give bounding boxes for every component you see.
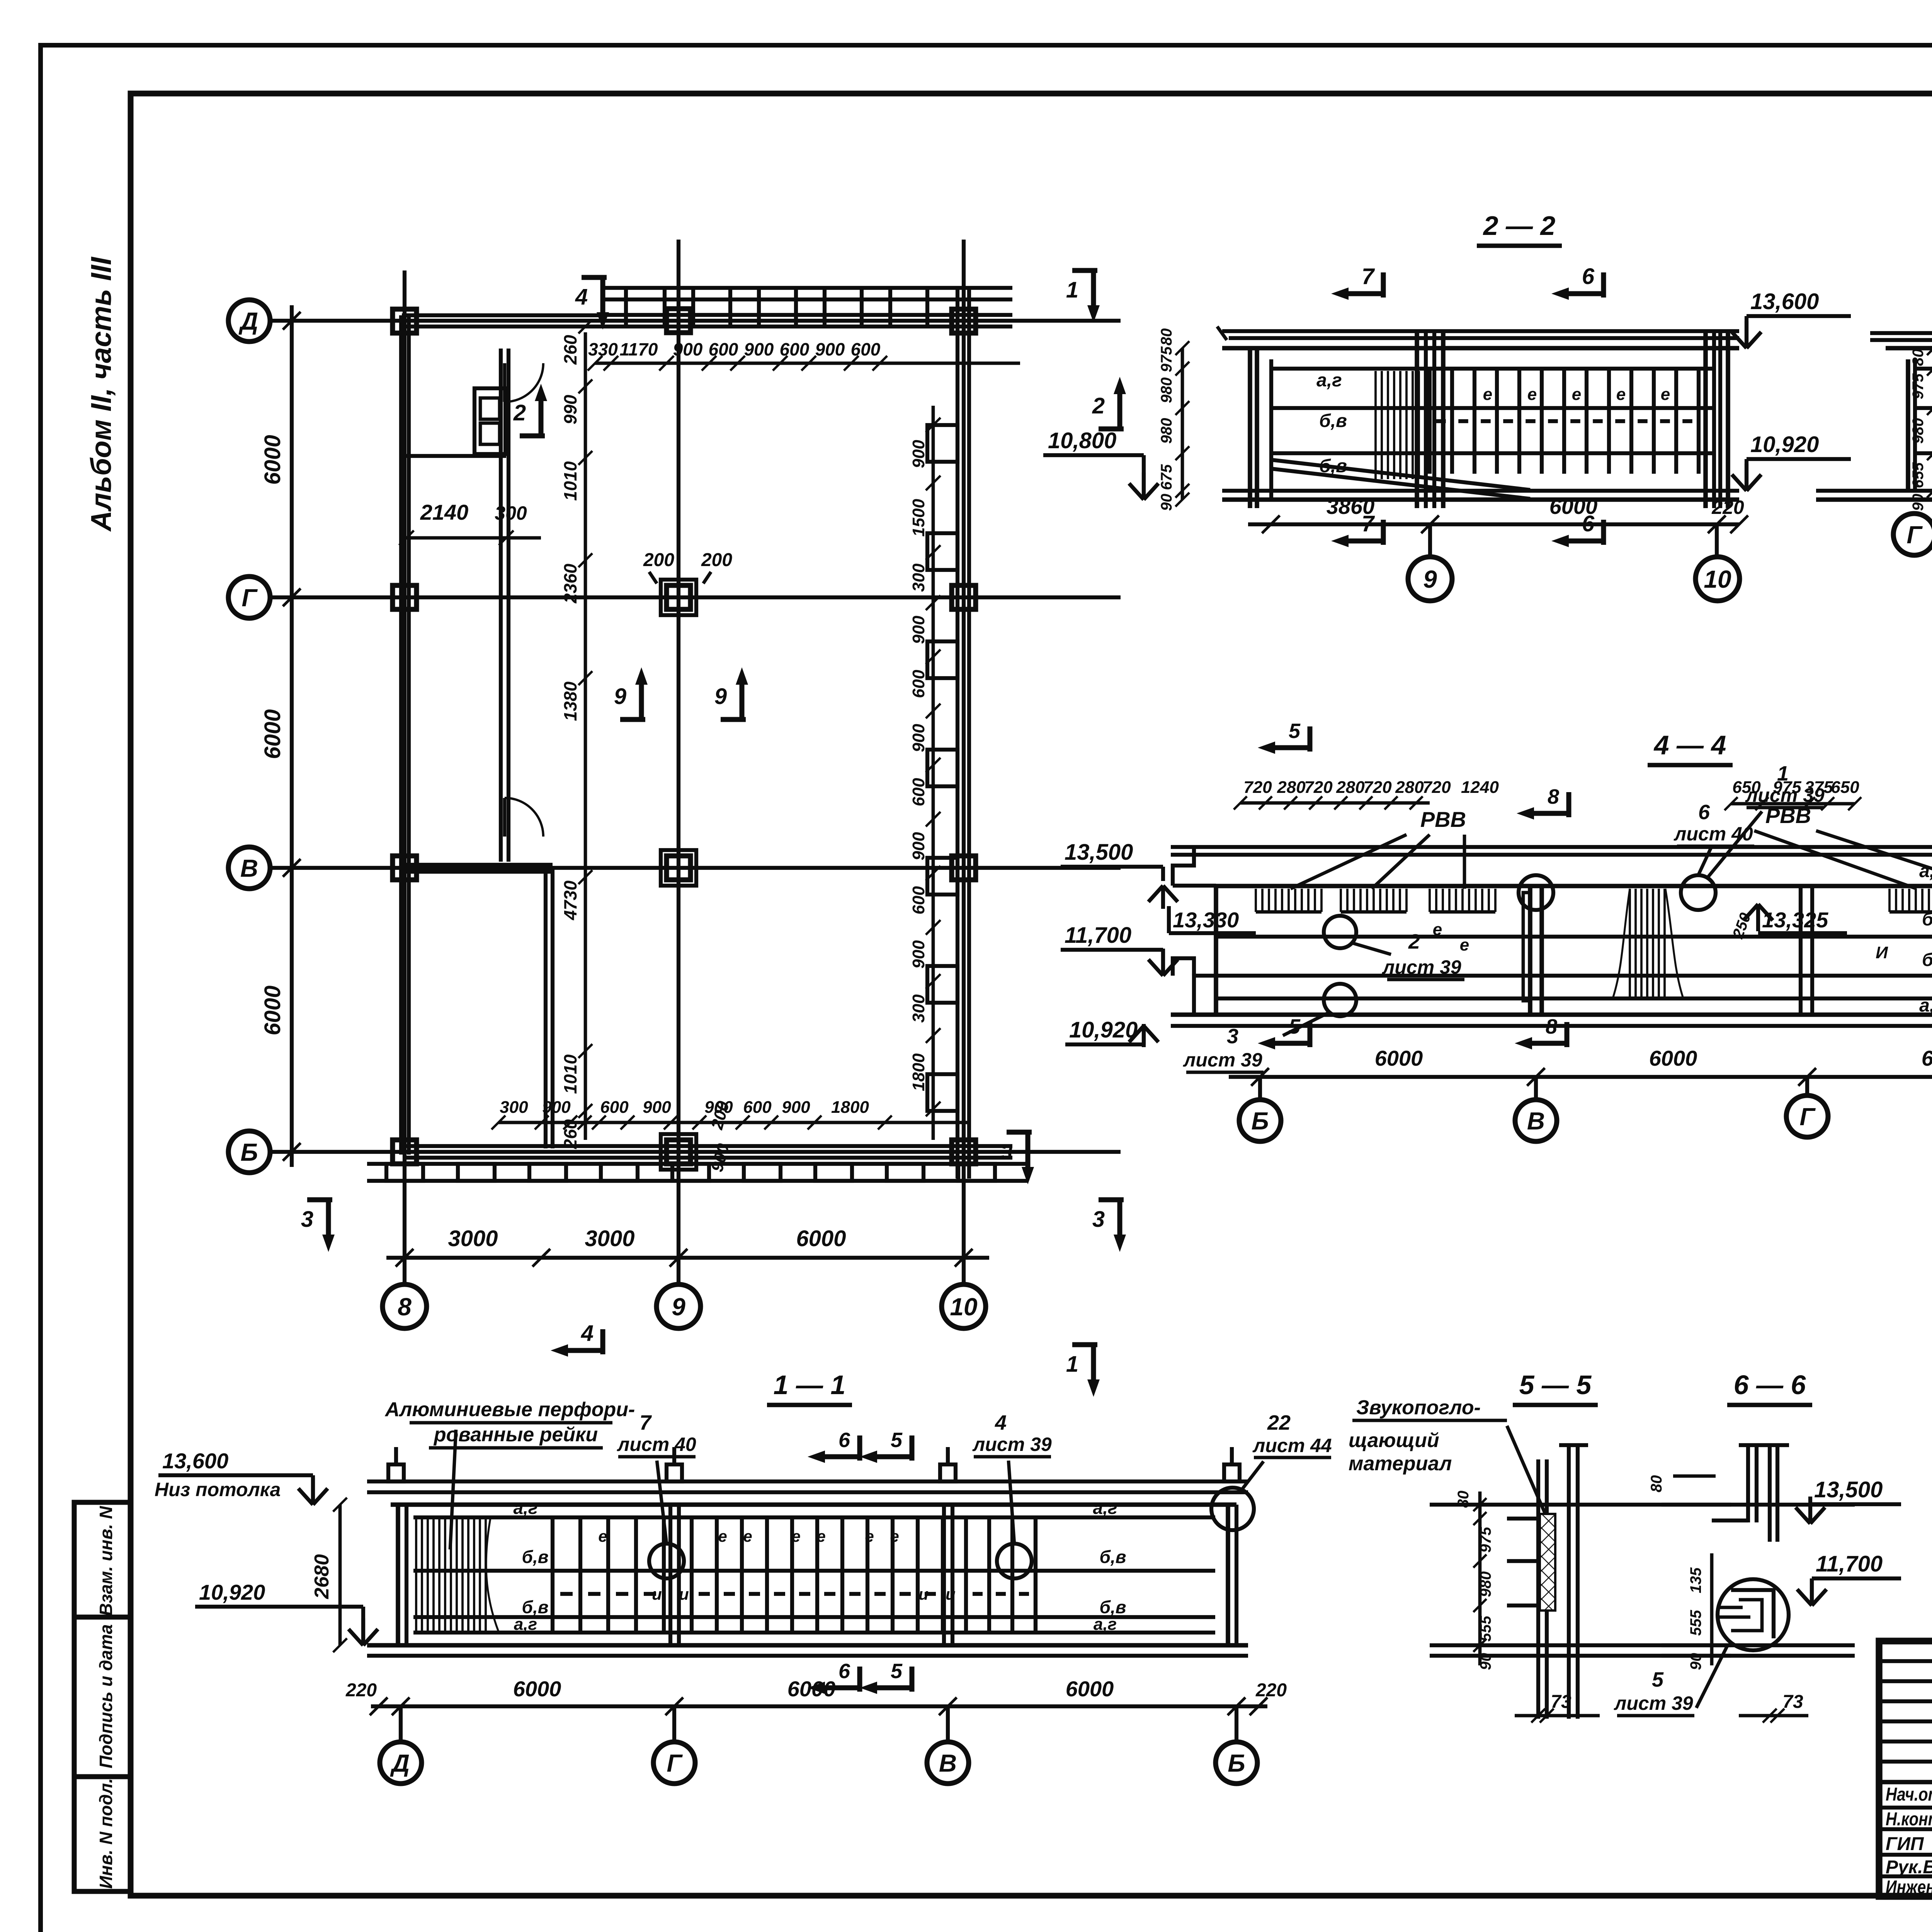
svg-text:6000: 6000 <box>260 985 285 1035</box>
plan door swing lower <box>503 798 507 837</box>
svg-text:900: 900 <box>744 339 774 359</box>
svg-text:4730: 4730 <box>560 880 580 920</box>
svg-text:260: 260 <box>560 1119 580 1149</box>
section 7-7 window cell lines <box>1915 406 1932 410</box>
plan south dimension string <box>498 1121 970 1124</box>
svg-text:7: 7 <box>1362 264 1375 289</box>
section 6-6 dim 73 <box>1739 1714 1808 1718</box>
svg-text:лист 39: лист 39 <box>1183 1049 1262 1071</box>
title block main frame <box>1879 1641 1932 1896</box>
svg-text:10: 10 <box>1704 565 1731 593</box>
section 4-4 parapet left <box>1173 847 1194 886</box>
section 1-1 dim 2680 <box>338 1505 342 1645</box>
svg-text:720: 720 <box>1304 778 1333 797</box>
section 2-2 stair shaft hatch <box>1374 371 1377 479</box>
svg-text:И: И <box>1876 943 1888 962</box>
cut mark 9 right <box>721 717 746 722</box>
svg-text:е: е <box>1616 385 1626 404</box>
svg-text:Низ потолка: Низ потолка <box>155 1479 281 1500</box>
section 4-4 bottom dimension line <box>1229 1075 1932 1079</box>
svg-text:1800: 1800 <box>831 1098 869 1117</box>
section 2-2 axis circle 9 <box>1428 524 1432 557</box>
plan column 10-Г <box>952 585 976 609</box>
svg-text:600: 600 <box>600 1098 629 1117</box>
svg-text:300: 300 <box>909 563 928 592</box>
svg-text:лист 40: лист 40 <box>1673 823 1753 845</box>
svg-text:600: 600 <box>909 886 928 915</box>
plan column 10-Б <box>952 1140 976 1164</box>
section 4-4 cut mark 8 top <box>1566 792 1571 817</box>
plan wall at В <box>406 863 553 867</box>
section 4-4 top slab <box>1171 845 1932 849</box>
section 4-4 axis circle Г <box>1805 1077 1809 1095</box>
svg-text:Г: Г <box>667 1749 683 1777</box>
svg-text:Инженер: Инженер <box>1886 1877 1932 1898</box>
svg-text:3: 3 <box>1227 1025 1238 1048</box>
svg-text:975: 975 <box>1477 1527 1494 1553</box>
svg-text:9: 9 <box>1423 565 1437 593</box>
section 2-2 stair ramp <box>1271 460 1530 490</box>
section 2-2 ceiling line <box>1271 367 1716 371</box>
section 2-2 cut mark 7 top <box>1381 272 1386 298</box>
svg-text:650: 650 <box>1732 778 1761 797</box>
svg-text:9: 9 <box>614 684 626 709</box>
plan interior vertical dimension chain <box>584 332 587 1140</box>
svg-text:980: 980 <box>1910 418 1927 444</box>
svg-text:720: 720 <box>1422 778 1451 797</box>
svg-text:лист 39: лист 39 <box>1614 1692 1693 1714</box>
axis circle 9 <box>656 1284 701 1328</box>
plan column 9-Б <box>667 1140 690 1164</box>
section 1-1 cut marks 6 5 bottom <box>857 1667 862 1692</box>
cut mark 3 left <box>307 1197 332 1202</box>
svg-text:650: 650 <box>1831 778 1859 797</box>
svg-text:11,700: 11,700 <box>1816 1551 1883 1577</box>
svg-text:8: 8 <box>1546 1015 1557 1038</box>
svg-text:2: 2 <box>1092 393 1105 418</box>
svg-text:980: 980 <box>1477 1571 1494 1597</box>
section 4-4 band lines <box>1216 935 1932 939</box>
svg-text:6000: 6000 <box>1922 1046 1932 1070</box>
plan column 8-Г <box>393 585 417 609</box>
floor plan axis 8 <box>403 270 406 1287</box>
section 5-5 ceiling line <box>1430 1503 1731 1507</box>
svg-text:10,920: 10,920 <box>199 1580 265 1604</box>
section 1-1 ceiling line <box>391 1502 1236 1507</box>
svg-text:Б: Б <box>240 1138 258 1166</box>
svg-text:80: 80 <box>1158 328 1175 346</box>
svg-text:220: 220 <box>1711 497 1744 518</box>
svg-text:6: 6 <box>838 1660 850 1683</box>
svg-text:Звукопогло-: Звукопогло- <box>1356 1396 1481 1419</box>
cut mark 9 left <box>620 717 645 722</box>
svg-text:Взам. инв. N: Взам. инв. N <box>96 1506 116 1616</box>
section 2-2 left dim chain <box>1181 348 1184 500</box>
svg-text:375: 375 <box>1804 778 1833 797</box>
section 4-4 detail circle 3 <box>1324 984 1356 1016</box>
svg-text:90: 90 <box>1687 1653 1704 1670</box>
section 5-5 dim chain <box>1478 1492 1482 1665</box>
svg-text:900: 900 <box>909 440 928 468</box>
axis circle 8 <box>383 1284 427 1328</box>
svg-text:а,г: а,г <box>514 1615 537 1634</box>
plan closet <box>474 388 505 454</box>
svg-text:6000: 6000 <box>1375 1046 1423 1070</box>
floor plan axis 10 <box>962 240 966 1287</box>
svg-text:6000: 6000 <box>787 1677 836 1701</box>
svg-text:Д: Д <box>238 307 258 335</box>
svg-text:лист 39: лист 39 <box>1382 956 1461 978</box>
svg-text:1380: 1380 <box>560 681 580 721</box>
svg-text:е: е <box>743 1527 752 1545</box>
section 5-5 ticks <box>1507 1517 1540 1520</box>
svg-text:6: 6 <box>838 1429 850 1452</box>
svg-text:6000: 6000 <box>513 1677 561 1701</box>
svg-text:6000: 6000 <box>1649 1046 1697 1070</box>
svg-text:600: 600 <box>851 339 881 359</box>
section 1-1 axis circle В <box>946 1706 950 1742</box>
svg-text:80: 80 <box>1910 349 1927 366</box>
svg-text:975: 975 <box>1158 346 1175 372</box>
svg-text:РВВ: РВВ <box>1420 807 1466 832</box>
section 4-4 axis circle Б <box>1258 1077 1262 1100</box>
svg-text:а,г: а,г <box>1919 995 1932 1016</box>
svg-text:10,920: 10,920 <box>1750 432 1819 457</box>
section 4-4 cut mark 8 bottom <box>1565 1022 1570 1047</box>
section 4-4 axis circle В <box>1534 1077 1538 1100</box>
svg-text:3: 3 <box>1001 1141 1012 1164</box>
section 4-4 cut mark 5 bottom <box>1308 1022 1313 1047</box>
svg-text:280: 280 <box>1336 778 1365 797</box>
section 1-1 detail circle 7 <box>649 1544 684 1578</box>
svg-text:73: 73 <box>1551 1692 1571 1712</box>
svg-text:лист 40: лист 40 <box>617 1434 696 1455</box>
section 1-1 band bottom <box>413 1631 1215 1634</box>
svg-text:1800: 1800 <box>909 1053 928 1091</box>
axis circle Г <box>228 577 270 618</box>
svg-text:1010: 1010 <box>560 461 580 501</box>
cut mark 1 top <box>1072 268 1097 273</box>
section 4-4 top dim string left <box>1240 801 1430 805</box>
svg-text:900: 900 <box>643 1098 671 1117</box>
svg-text:Г: Г <box>1906 521 1923 549</box>
section 1-1 axis circle Б <box>1235 1706 1238 1742</box>
svg-text:6 — 6: 6 — 6 <box>1734 1370 1806 1400</box>
plan partition room top-left <box>406 454 506 458</box>
svg-text:а,г: а,г <box>1919 861 1932 881</box>
svg-text:6000: 6000 <box>1549 494 1598 519</box>
svg-text:9: 9 <box>714 684 727 709</box>
plan wall along axis 8 <box>399 315 403 1155</box>
title block left small table <box>1879 1659 1932 1663</box>
section 1-1 bottom dimension line <box>371 1704 1267 1708</box>
plan column 9-Д <box>667 309 690 333</box>
svg-text:220: 220 <box>1255 1680 1287 1701</box>
section 4-4 left lower ledge <box>1173 958 1194 976</box>
section 2-2 right column <box>1703 331 1708 508</box>
svg-text:а,г: а,г <box>1094 1615 1117 1634</box>
svg-text:е: е <box>598 1527 607 1545</box>
svg-text:б,в: б,в <box>1319 456 1347 476</box>
svg-text:13,500: 13,500 <box>1814 1477 1883 1502</box>
svg-text:555: 555 <box>1687 1610 1704 1636</box>
svg-text:5: 5 <box>1289 719 1301 743</box>
svg-text:Рук.Бр.: Рук.Бр. <box>1886 1857 1932 1878</box>
svg-text:е: е <box>1460 935 1469 954</box>
svg-text:В: В <box>1527 1107 1545 1135</box>
section 2-2 column axis 9 <box>1415 331 1419 508</box>
svg-text:Алюминиевые перфори-: Алюминиевые перфори- <box>384 1398 635 1421</box>
section 4-4 top dim string right <box>1731 802 1855 806</box>
svg-text:675: 675 <box>1158 464 1175 490</box>
section 6-6 floor line <box>1662 1643 1855 1647</box>
section 4-4 detail circle 6 <box>1681 875 1716 910</box>
svg-text:материал: материал <box>1349 1452 1452 1475</box>
svg-text:720: 720 <box>1363 778 1392 797</box>
axis circle 10 <box>942 1284 986 1328</box>
svg-text:300: 300 <box>909 994 928 1023</box>
section 1-1 cut marks 6 5 top <box>857 1435 862 1461</box>
svg-text:б,в: б,в <box>1922 950 1932 970</box>
section 1-1 axis circle Д <box>399 1706 403 1742</box>
floor plan axis line Б <box>270 1150 1121 1154</box>
plan column 10-В <box>952 856 976 880</box>
svg-text:Подпись и дата: Подпись и дата <box>96 1624 116 1769</box>
svg-text:ГИП: ГИП <box>1886 1834 1924 1854</box>
section 6-6 detail circle <box>1718 1579 1789 1650</box>
section 2-2 floor line <box>1222 489 1739 493</box>
cut mark 4 bottom <box>600 1329 605 1354</box>
svg-text:5: 5 <box>1652 1668 1664 1691</box>
section 1-1 window mullions middle bay <box>690 1517 694 1633</box>
section 5-5 dim 73 <box>1515 1714 1600 1718</box>
svg-text:980: 980 <box>1158 378 1175 403</box>
svg-text:2140: 2140 <box>420 500 469 524</box>
svg-text:4 — 4: 4 — 4 <box>1653 730 1726 760</box>
svg-text:б,в: б,в <box>1922 909 1932 930</box>
svg-text:11,700: 11,700 <box>1065 923 1131 948</box>
svg-text:200: 200 <box>701 550 732 570</box>
svg-text:1500: 1500 <box>909 499 928 537</box>
svg-text:е: е <box>865 1527 874 1545</box>
svg-text:260: 260 <box>560 335 580 365</box>
svg-text:б,в: б,в <box>1319 411 1347 431</box>
svg-text:555: 555 <box>1477 1616 1494 1641</box>
svg-text:90: 90 <box>1158 494 1175 511</box>
plan wall corridor lower <box>544 868 548 1148</box>
section 1-1 window band top <box>413 1515 1215 1519</box>
svg-text:10,920: 10,920 <box>1069 1017 1138 1043</box>
svg-text:600: 600 <box>909 670 928 698</box>
svg-text:900: 900 <box>815 339 845 359</box>
section 6-6 wall top <box>1746 1445 1750 1522</box>
svg-text:975: 975 <box>1773 778 1801 797</box>
svg-text:Г: Г <box>241 584 258 612</box>
svg-text:2: 2 <box>513 400 526 425</box>
svg-text:600: 600 <box>909 778 928 806</box>
svg-text:и: и <box>946 1585 956 1603</box>
section 1-1 floor lines <box>367 1643 1248 1648</box>
svg-text:6000: 6000 <box>260 709 285 759</box>
plan column 8-В <box>393 856 417 880</box>
section 4-4 column В <box>1528 886 1532 1015</box>
svg-text:900: 900 <box>782 1098 810 1117</box>
svg-text:13,330: 13,330 <box>1173 908 1239 932</box>
axis circle Д <box>228 300 270 342</box>
svg-text:9: 9 <box>672 1293 685 1321</box>
svg-text:6000: 6000 <box>1066 1677 1114 1701</box>
section 4-4 cut mark 3 left <box>1007 1130 1032 1135</box>
section 5-5 wall <box>1536 1459 1540 1719</box>
section 1-1 hatched slat block <box>415 1519 417 1631</box>
plan column 9-Г <box>667 585 690 609</box>
svg-text:1 — 1: 1 — 1 <box>774 1370 846 1400</box>
svg-text:5: 5 <box>891 1660 903 1683</box>
plan column 10-Д <box>952 309 976 333</box>
floor plan axis line Г <box>270 595 1121 599</box>
svg-text:5: 5 <box>891 1429 903 1452</box>
svg-text:е: е <box>816 1527 825 1545</box>
svg-text:600: 600 <box>743 1098 772 1117</box>
svg-text:е: е <box>718 1527 727 1545</box>
svg-text:8: 8 <box>398 1293 412 1321</box>
svg-text:330: 330 <box>588 339 618 359</box>
svg-text:990: 990 <box>560 395 580 424</box>
section 2-2 cut mark 6 bottom <box>1601 520 1606 545</box>
svg-text:е: е <box>890 1527 899 1545</box>
section 5-5 cross hatch strip <box>1540 1514 1555 1611</box>
section 4-4 cut mark 5 top <box>1308 726 1313 752</box>
svg-text:200: 200 <box>643 550 674 570</box>
svg-text:13,600: 13,600 <box>1750 289 1819 314</box>
section 7-7 floor line <box>1816 489 1932 493</box>
svg-text:а,г: а,г <box>1316 370 1342 391</box>
cut mark 3 right <box>1099 1197 1124 1202</box>
section 6-6 ceiling line <box>1662 1503 1855 1507</box>
plan wall along Б <box>404 1144 1012 1148</box>
svg-text:2680: 2680 <box>311 1554 333 1599</box>
svg-text:лист 39: лист 39 <box>972 1434 1052 1455</box>
section 4-4 detail circle В <box>1519 875 1553 910</box>
svg-text:2360: 2360 <box>560 563 580 604</box>
svg-text:2: 2 <box>1408 930 1420 953</box>
section 1-1 top slab <box>367 1480 1248 1483</box>
svg-text:8: 8 <box>1548 785 1559 808</box>
svg-text:Альбом II, часть III: Альбом II, часть III <box>85 257 117 532</box>
section 6-6 bracket detail <box>1731 1590 1774 1638</box>
section 4-4 ceiling line <box>1216 884 1932 888</box>
plan door swing upper <box>503 363 507 402</box>
svg-text:б,в: б,в <box>1099 1547 1126 1567</box>
svg-text:6000: 6000 <box>796 1226 846 1251</box>
svg-text:1010: 1010 <box>560 1054 580 1094</box>
svg-text:720: 720 <box>1243 778 1272 797</box>
svg-text:б,в: б,в <box>522 1547 548 1567</box>
section 7-7 inner wall <box>1906 359 1910 491</box>
svg-text:Н.контр: Н.контр <box>1886 1809 1932 1830</box>
svg-text:135: 135 <box>1687 1567 1704 1593</box>
svg-text:Г: Г <box>1799 1103 1816 1131</box>
section 1-1 window mullions left bay <box>551 1517 554 1633</box>
svg-text:980: 980 <box>1158 418 1175 444</box>
svg-text:13,500: 13,500 <box>1065 840 1133 865</box>
svg-text:7: 7 <box>639 1411 652 1434</box>
svg-text:Нач.отд: Нач.отд <box>1886 1784 1932 1805</box>
svg-text:е: е <box>1483 385 1492 404</box>
svg-text:10: 10 <box>950 1293 977 1321</box>
svg-text:6: 6 <box>1582 264 1595 289</box>
svg-text:1240: 1240 <box>1461 778 1499 797</box>
section 4-4 shaft hatch <box>1629 889 1631 997</box>
section 2-2 axis circle 10 <box>1715 524 1719 557</box>
section 5-5 floor line <box>1430 1643 1731 1647</box>
floor plan axis line В <box>270 866 1121 870</box>
section 4-4 left end wall <box>1214 886 1218 1015</box>
svg-text:3000: 3000 <box>585 1226 634 1251</box>
svg-text:4: 4 <box>575 284 588 310</box>
svg-text:300: 300 <box>500 1098 528 1117</box>
svg-text:2 — 2: 2 — 2 <box>1483 211 1556 241</box>
svg-text:е: е <box>791 1527 800 1545</box>
svg-text:280: 280 <box>1395 778 1424 797</box>
svg-text:13,600: 13,600 <box>162 1449 228 1473</box>
svg-text:80: 80 <box>1648 1475 1665 1493</box>
svg-text:220: 220 <box>345 1680 377 1701</box>
svg-text:4: 4 <box>995 1411 1007 1434</box>
svg-text:и: и <box>652 1585 662 1603</box>
svg-text:а,г: а,г <box>1093 1498 1117 1518</box>
svg-text:Б: Б <box>1228 1749 1245 1777</box>
left margin stamp column <box>74 1502 131 1891</box>
section 1-1 column Г <box>668 1505 672 1645</box>
section 2-2 roof slab <box>1222 329 1739 333</box>
section 1-1 window mullions right bay <box>964 1517 968 1633</box>
svg-text:1: 1 <box>1066 1352 1078 1377</box>
svg-text:3: 3 <box>301 1207 313 1232</box>
plan north window band <box>603 286 1012 290</box>
section 1-1 band mid lines <box>413 1569 1215 1573</box>
svg-text:90: 90 <box>1910 494 1927 511</box>
svg-text:300: 300 <box>495 502 527 524</box>
svg-text:б,в: б,в <box>522 1597 548 1617</box>
section 1-1 column Д <box>396 1505 400 1645</box>
svg-text:280: 280 <box>1277 778 1306 797</box>
plan north dimension string <box>595 362 1020 365</box>
plan wall along Д <box>402 313 603 317</box>
section 2-2 dimension line <box>1248 522 1739 526</box>
svg-text:лист 44: лист 44 <box>1252 1435 1332 1456</box>
svg-text:900: 900 <box>673 339 703 359</box>
svg-text:3860: 3860 <box>1327 494 1375 519</box>
svg-text:5 — 5: 5 — 5 <box>1519 1370 1592 1400</box>
svg-text:655: 655 <box>1910 462 1927 488</box>
svg-text:б,в: б,в <box>1099 1597 1126 1617</box>
section 2-2 cut mark 6 top <box>1601 272 1606 298</box>
svg-text:рованные рейки: рованные рейки <box>433 1423 598 1446</box>
svg-text:Д: Д <box>390 1749 410 1777</box>
section 1-1 column В <box>942 1505 946 1645</box>
section 1-1 axis circle Г <box>672 1706 676 1742</box>
section 4-4 floor lines <box>1171 1012 1932 1017</box>
plan interior corridor wall <box>499 349 503 862</box>
plan axis10 dimension chain <box>932 406 935 1140</box>
svg-text:600: 600 <box>780 339 810 359</box>
cut mark 2 right <box>1099 427 1124 432</box>
svg-text:а,г: а,г <box>514 1498 538 1518</box>
section 2-2 left column <box>1248 348 1252 508</box>
svg-text:3000: 3000 <box>448 1226 498 1251</box>
plan south cladding band <box>367 1162 1028 1166</box>
